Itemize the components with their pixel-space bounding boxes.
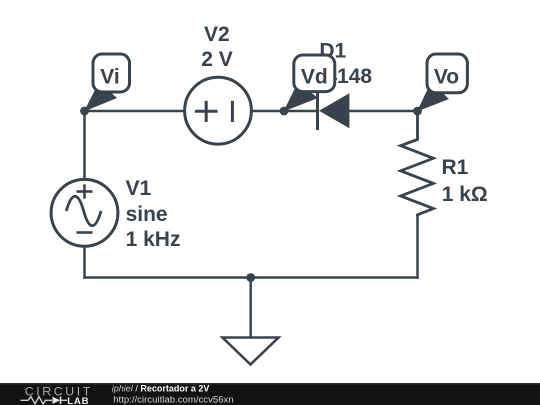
node flag Vi — [84, 54, 130, 112]
wire junction to ground — [249, 278, 252, 338]
label R1 — [442, 156, 469, 179]
node flag Vo — [417, 54, 467, 112]
wire V2 right terminal to Vd node — [252, 110, 285, 113]
ground — [223, 338, 279, 365]
CircuitLab logo schematic line (resistor + diode) — [21, 397, 68, 404]
svg-text:LAB: LAB — [67, 396, 89, 405]
svg-text:Vo: Vo — [434, 66, 459, 89]
svg-text:1 kHz: 1 kHz — [126, 228, 181, 251]
node Vd junction dot — [280, 107, 289, 116]
svg-text:iphiel / Recortador a 2V: iphiel / Recortador a 2V — [112, 384, 210, 394]
node Vi junction dot — [80, 107, 89, 116]
svg-text:sine: sine — [126, 203, 168, 226]
footer url line: http://circuitlab.com/ccv56xn — [113, 395, 234, 405]
wire D1 anode to Vo node — [349, 110, 418, 113]
wire Vi node down to V1 plus terminal — [83, 111, 86, 180]
CircuitLab logo wordmark LAB — [67, 396, 89, 405]
svg-text:http://circuitlab.com/ccv56xn: http://circuitlab.com/ccv56xn — [113, 395, 234, 405]
label sine — [126, 203, 168, 226]
svg-text:Vd: Vd — [301, 66, 328, 89]
node ground junction dot — [246, 273, 255, 282]
footer credit line: iphiel / Recortador a 2V — [112, 384, 210, 394]
node flag Vd — [284, 55, 335, 112]
label 1N4148 (value of diode, partly hidden behind Vd flag) — [299, 65, 373, 88]
CircuitLab logo wordmark CIRCUIT — [25, 384, 93, 398]
wire bottom rail — [83, 276, 419, 279]
label 2 V — [201, 48, 233, 71]
label 1 kOhm — [442, 183, 488, 206]
label 1 kHz — [126, 228, 181, 251]
svg-text:V1: V1 — [126, 177, 152, 200]
label V1 — [126, 177, 152, 200]
voltage source V2 (horizontal DC source) — [185, 77, 252, 144]
wire Vi node to V2 left terminal — [85, 110, 186, 113]
footer bar — [0, 383, 540, 405]
wire V1 minus terminal down to bottom rail — [83, 246, 86, 279]
node Vo junction dot — [413, 107, 422, 116]
label D1 (name of diode) — [319, 39, 346, 62]
svg-text:V2: V2 — [204, 23, 230, 46]
diode D1 (cathode bar and triangle, pointing left) — [318, 93, 350, 131]
svg-text:2 V: 2 V — [201, 48, 233, 71]
wire Vd node to D1 cathode — [284, 110, 318, 113]
voltage source V1 (sine source) — [51, 179, 118, 246]
svg-text:Vi: Vi — [100, 66, 119, 89]
wire R1 bottom to bottom rail — [416, 215, 419, 279]
resistor R1 (vertical zigzag) — [401, 111, 434, 216]
svg-text:R1: R1 — [442, 156, 469, 179]
svg-text:1 kΩ: 1 kΩ — [442, 183, 488, 206]
label V2 — [204, 23, 230, 46]
